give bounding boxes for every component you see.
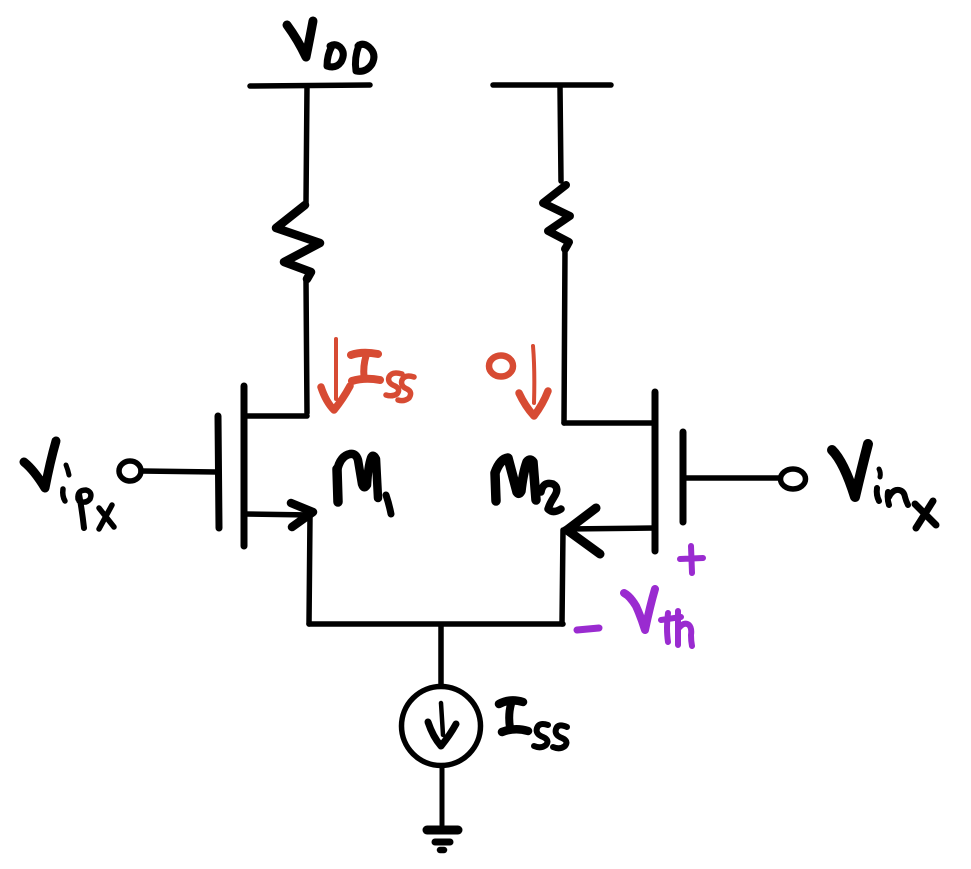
- wire rail to resistor R1: [306, 86, 307, 203]
- label M1: [337, 454, 391, 514]
- label M2: [495, 458, 561, 512]
- bottom wire (tail node): [309, 621, 563, 627]
- resistor R1: [276, 205, 320, 279]
- label Vip_x: [24, 441, 114, 529]
- red zero label: [489, 356, 513, 377]
- red current arrow at M2 drain: [519, 346, 548, 416]
- wire rail to resistor R2: [560, 86, 561, 181]
- label ISS (tail current): [499, 700, 567, 748]
- red label Iss: [351, 353, 414, 401]
- purple label Vth: [624, 589, 692, 646]
- VDD rail right: [493, 82, 611, 88]
- transistor M2: [564, 392, 683, 554]
- resistor R2: [543, 185, 570, 249]
- VDD rail left: [250, 85, 370, 86]
- red current arrow at M1 drain: [321, 339, 350, 410]
- wire M1 source down: [309, 516, 310, 624]
- wire tail to current source: [438, 625, 444, 686]
- wire resistor R2 to M2 drain: [564, 249, 565, 423]
- wire M1 gate: [141, 471, 217, 472]
- transistor M1: [218, 386, 313, 546]
- VDD label: [287, 21, 374, 71]
- purple minus sign: [577, 628, 599, 630]
- output terminal circle Vin: [781, 469, 806, 489]
- wire resistor R1 to M1 drain: [306, 280, 307, 413]
- wire current source to ground: [440, 768, 445, 825]
- label Vin_x: [832, 444, 936, 528]
- current source ISS: [402, 687, 481, 766]
- wire M2 gate: [684, 475, 780, 481]
- input terminal circle Vip: [119, 461, 141, 481]
- ground: [427, 830, 458, 850]
- wire M2 source down: [562, 530, 563, 624]
- purple plus sign: [680, 546, 703, 573]
